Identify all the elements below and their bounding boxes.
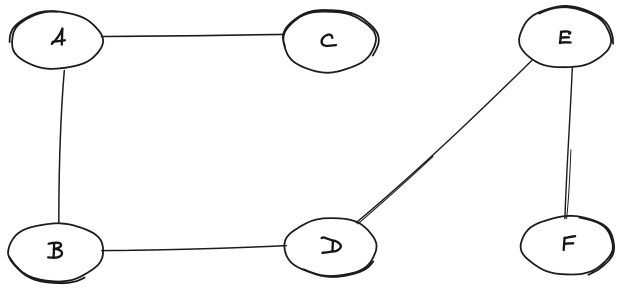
label A xyxy=(52,29,65,45)
wire edge D-E xyxy=(356,61,531,224)
node D (ellipse) xyxy=(284,218,376,277)
label C xyxy=(322,35,336,46)
wire edge E-F xyxy=(565,68,572,219)
node C (ellipse) xyxy=(283,10,379,73)
wire edge A-C xyxy=(102,34,285,36)
label F xyxy=(564,236,575,250)
wire edge B-D xyxy=(102,246,286,251)
wire edge A-B xyxy=(59,71,65,223)
label D xyxy=(322,237,341,252)
node E (ellipse) xyxy=(519,6,613,67)
label E xyxy=(560,31,571,43)
node A (ellipse) xyxy=(10,11,104,69)
node B (ellipse) xyxy=(8,223,103,283)
node F (ellipse) xyxy=(521,216,614,275)
label B xyxy=(48,243,62,258)
